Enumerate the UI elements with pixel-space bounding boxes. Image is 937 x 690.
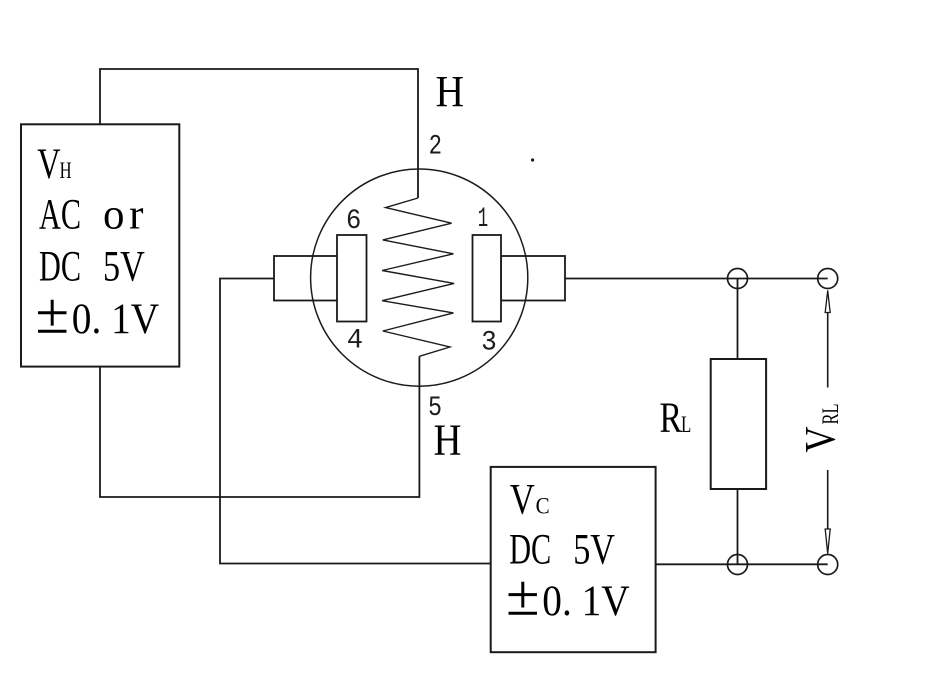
svg-text:V: V xyxy=(37,141,60,188)
label DC 5V in VC box xyxy=(509,526,615,573)
svg-text:4: 4 xyxy=(347,326,363,357)
svg-text:0. 1V: 0. 1V xyxy=(72,296,159,343)
voltage source VC box xyxy=(491,467,656,652)
svg-text:0. 1V: 0. 1V xyxy=(542,578,629,625)
electrode plate 1-3 xyxy=(473,235,502,322)
VRL arrow up xyxy=(825,291,830,388)
electrode plate 6-4 xyxy=(337,235,367,322)
svg-text:2: 2 xyxy=(429,132,442,163)
sensor tab left xyxy=(274,256,338,301)
VRL arrow down xyxy=(825,470,830,554)
terminal node bottom left xyxy=(728,555,748,575)
wire tab 6-4 to VC box xyxy=(220,279,491,564)
svg-text:R: R xyxy=(660,395,683,442)
stray dot xyxy=(531,158,534,161)
svg-text:H: H xyxy=(434,415,462,464)
svg-text:H: H xyxy=(436,67,465,116)
svg-text:DC: DC xyxy=(509,526,551,573)
svg-text:3: 3 xyxy=(481,327,497,358)
svg-text:L: L xyxy=(681,412,691,437)
wire VC to bottom output node xyxy=(656,563,828,565)
svg-text:C: C xyxy=(536,494,550,519)
wire tab 1-3 to output node xyxy=(565,278,828,280)
terminal node top left xyxy=(728,269,748,289)
svg-text:or: or xyxy=(103,191,144,238)
terminal node bottom right xyxy=(818,555,838,575)
voltage source VH box xyxy=(21,124,179,366)
svg-text:DC: DC xyxy=(39,243,81,290)
wire node to RL top xyxy=(737,279,739,360)
label VRL xyxy=(798,404,845,453)
svg-text:AC: AC xyxy=(39,191,81,238)
svg-text:RL: RL xyxy=(818,404,843,425)
svg-text:V: V xyxy=(510,477,535,524)
svg-text:5V: 5V xyxy=(573,526,615,573)
label plus-minus 0.1V xyxy=(38,296,159,343)
label plus-minus 0.1V in VC box xyxy=(509,578,630,625)
wire pin 5 to VH bottom xyxy=(100,356,419,497)
resistor RL xyxy=(711,359,766,489)
svg-text:5V: 5V xyxy=(103,243,145,290)
terminal node top right xyxy=(818,269,838,289)
heater coil zigzag pin2 to pin5 xyxy=(382,198,454,356)
label AC or xyxy=(39,191,144,238)
label DC 5V xyxy=(39,243,145,290)
wire VH top to sensor pin 2 xyxy=(100,69,418,198)
wire RL bottom to node xyxy=(737,489,739,565)
svg-text:H: H xyxy=(60,158,72,183)
svg-text:V: V xyxy=(798,427,845,453)
sensor envelope circle xyxy=(311,169,528,386)
sensor tab right xyxy=(501,256,565,301)
svg-text:6: 6 xyxy=(346,206,361,237)
svg-text:1: 1 xyxy=(478,204,488,235)
